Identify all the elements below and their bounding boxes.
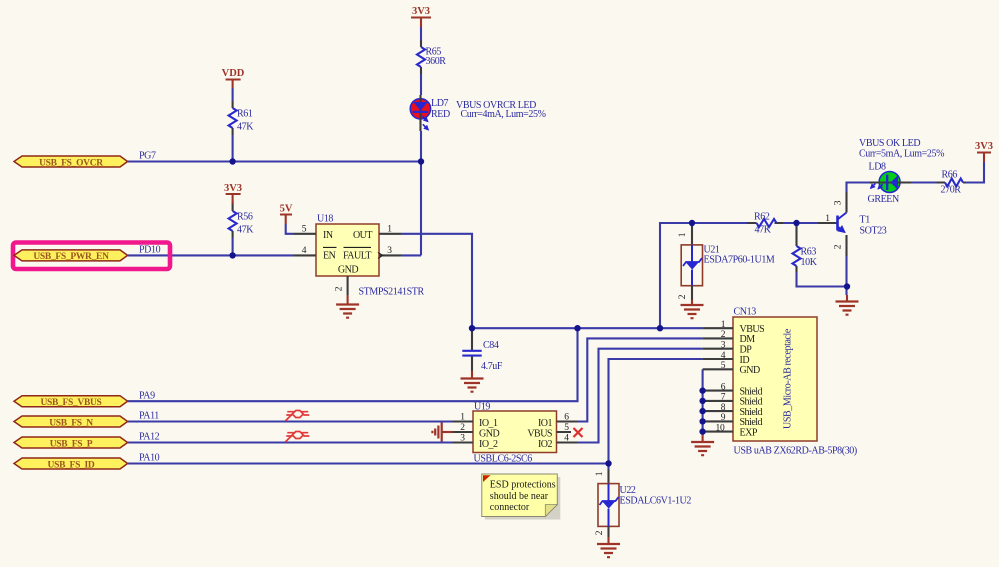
port USB_FS_OVCR (14, 156, 128, 168)
svg-text:PD10: PD10 (139, 245, 161, 256)
svg-text:should be near: should be near (490, 491, 549, 502)
IC U18 regulator (294, 214, 401, 296)
svg-text:360R: 360R (426, 56, 447, 67)
svg-text:ESD protections: ESD protections (490, 480, 556, 491)
svg-text:1: 1 (825, 214, 830, 224)
svg-text:6: 6 (721, 382, 726, 392)
wire PA9 VBUS riser (128, 328, 578, 401)
ground C84 (461, 371, 484, 392)
svg-text:6: 6 (564, 413, 569, 423)
wire 3V3 to R65 (420, 27, 422, 41)
svg-text:PA9: PA9 (139, 390, 155, 401)
wire U19 IO2 to CN13 DP (577, 349, 703, 443)
svg-text:2: 2 (721, 330, 726, 340)
svg-text:ESDA7P60-1U1M: ESDA7P60-1U1M (704, 255, 775, 266)
svg-text:10: 10 (716, 423, 725, 433)
node OVCR/LD7 (418, 158, 424, 164)
ground CN13 shield (691, 432, 714, 456)
svg-text:R56: R56 (237, 212, 253, 223)
wire U18 OUT to rail (401, 234, 472, 328)
svg-text:3: 3 (387, 246, 392, 256)
node shield6 (699, 387, 705, 393)
wire VBUS rail (472, 327, 703, 329)
svg-text:USBLC6-2SC6: USBLC6-2SC6 (474, 454, 533, 465)
node emitter/R63 (844, 283, 850, 289)
svg-text:4: 4 (721, 351, 726, 361)
svg-text:OUT: OUT (353, 230, 372, 241)
wire PA11 to U19 (128, 420, 453, 422)
svg-text:1: 1 (595, 471, 605, 476)
svg-text:PG7: PG7 (139, 151, 156, 162)
node shield7 (699, 398, 705, 404)
svg-text:1: 1 (721, 320, 726, 330)
node OVCR/R61 (229, 158, 235, 164)
diff pair marker PA11 (285, 411, 309, 422)
svg-text:PA12: PA12 (139, 432, 160, 443)
wire 5V to U18 IN (286, 224, 294, 234)
resistor R66 (937, 170, 967, 196)
svg-text:VBUS: VBUS (527, 428, 552, 439)
svg-text:3V3: 3V3 (412, 6, 430, 17)
wire R62 to T1 base (783, 222, 818, 224)
svg-text:C84: C84 (483, 340, 499, 351)
svg-text:3V3: 3V3 (224, 183, 242, 194)
svg-text:7: 7 (721, 393, 726, 403)
no-ERC X on U19 pin5 (574, 428, 583, 437)
svg-text:SOT23: SOT23 (860, 226, 887, 237)
node rail/PA9 (574, 325, 580, 331)
node R62/R63 (793, 220, 799, 226)
svg-text:IO2: IO2 (538, 439, 553, 450)
port USB_FS_ID (14, 458, 128, 470)
svg-text:R62: R62 (754, 212, 770, 223)
resistor R62 (747, 212, 783, 236)
node shield10 (699, 428, 705, 434)
svg-text:5V: 5V (280, 204, 293, 215)
svg-text:2: 2 (595, 530, 605, 535)
svg-text:USB_Micro-AB receptacle: USB_Micro-AB receptacle (783, 328, 794, 429)
connector CN13 (703, 307, 817, 442)
svg-text:4.7uF: 4.7uF (481, 361, 503, 372)
wire R66 to 3V3 (966, 162, 984, 183)
svg-text:GND: GND (740, 365, 760, 376)
wire LD8 to R66 (911, 181, 937, 183)
ground U19 rotated (432, 423, 452, 442)
diode U21 ESD (678, 223, 775, 300)
highlight box PWR_EN (13, 243, 170, 270)
svg-text:4: 4 (564, 434, 569, 444)
svg-text:GREEN: GREEN (868, 194, 900, 205)
wire LD7 cathode to FAULT vertical (401, 131, 421, 255)
ground U18 (336, 295, 359, 318)
transistor T1 (818, 192, 887, 256)
wire U21 riser (660, 223, 747, 328)
wire USB_FS_OVCR horizontal (128, 160, 421, 162)
wire R65 to LD7 (420, 74, 422, 95)
resistor R61 (229, 101, 255, 135)
svg-text:VDD: VDD (222, 68, 245, 79)
svg-text:1: 1 (678, 232, 688, 237)
svg-text:PA10: PA10 (139, 453, 160, 464)
svg-text:Curr=4mA, Lum=25%: Curr=4mA, Lum=25% (461, 109, 546, 120)
wire 3V3 to R56 (232, 202, 234, 204)
svg-text:10K: 10K (801, 257, 818, 268)
svg-text:47K: 47K (755, 225, 772, 236)
node ID/U22 (605, 460, 611, 466)
ground T1 (836, 295, 859, 315)
capacitor C84 (462, 328, 503, 372)
svg-text:U19: U19 (474, 402, 490, 413)
wire R63 bottom to emitter (797, 272, 848, 287)
svg-text:1: 1 (387, 225, 392, 235)
svg-text:FAULT: FAULT (343, 250, 371, 261)
wire PA12 to U19 (128, 441, 453, 443)
svg-text:VBUS OK LED: VBUS OK LED (859, 138, 920, 149)
port USB_FS_P (14, 437, 128, 449)
svg-text:USB uAB ZX62RD-AB-5P8(30): USB uAB ZX62RD-AB-5P8(30) (734, 446, 857, 457)
svg-text:5: 5 (302, 225, 307, 235)
power 5V (280, 204, 293, 225)
svg-text:2: 2 (834, 244, 844, 249)
wire USB_FS_PWR_EN horizontal (128, 254, 294, 256)
power 3V3 right (975, 141, 993, 162)
resistor R56 (229, 204, 255, 238)
svg-text:EXP: EXP (740, 427, 758, 438)
svg-text:IO1: IO1 (538, 418, 553, 429)
svg-text:47K: 47K (237, 122, 254, 133)
svg-text:Curr=5mA, Lum=25%: Curr=5mA, Lum=25% (859, 149, 944, 160)
svg-text:9: 9 (721, 413, 726, 423)
svg-text:USB_FS_N: USB_FS_N (49, 418, 93, 428)
wire PA10 ID (128, 462, 609, 464)
diff pair marker PA12 (285, 432, 309, 443)
svg-text:3: 3 (721, 341, 726, 351)
LED LD8 (868, 162, 912, 206)
diode U22 ESD (595, 470, 691, 538)
wire R56 to PWR_EN net (232, 238, 234, 255)
svg-text:R61: R61 (237, 109, 253, 120)
svg-text:5: 5 (564, 423, 569, 433)
svg-text:GND: GND (479, 428, 499, 439)
svg-text:47K: 47K (237, 225, 254, 236)
svg-text:USB_FS_OVCR: USB_FS_OVCR (39, 158, 103, 168)
svg-text:1: 1 (460, 413, 465, 423)
wire VDD to R61 (232, 88, 234, 101)
svg-text:USB_FS_VBUS: USB_FS_VBUS (40, 398, 101, 408)
svg-text:STMPS2141STR: STMPS2141STR (359, 287, 425, 298)
svg-text:GND: GND (338, 265, 358, 276)
svg-text:T1: T1 (860, 215, 871, 226)
power 3V3 mid (224, 183, 242, 204)
node shield8 (699, 408, 705, 414)
power 3V3 top (411, 6, 431, 27)
port USB_FS_N (14, 416, 128, 428)
svg-text:270R: 270R (941, 185, 962, 196)
port USB_FS_VBUS (14, 396, 128, 408)
svg-text:USB_FS_ID: USB_FS_ID (48, 460, 95, 470)
port USB_FS_PWR_EN (14, 250, 128, 262)
svg-text:USB_FS_P: USB_FS_P (50, 439, 93, 449)
node rail/U21 riser (657, 325, 663, 331)
svg-text:R63: R63 (801, 247, 817, 258)
resistor R65 (417, 41, 446, 75)
node shield9 (699, 418, 705, 424)
svg-text:3: 3 (834, 200, 844, 205)
svg-text:ESDALC6V1-1U2: ESDALC6V1-1U2 (620, 496, 692, 507)
svg-text:RED: RED (431, 109, 450, 120)
svg-text:U18: U18 (317, 214, 333, 225)
svg-text:U22: U22 (620, 485, 636, 496)
svg-text:8: 8 (721, 403, 726, 413)
svg-text:2: 2 (335, 286, 345, 291)
svg-text:EN: EN (323, 250, 336, 261)
wire emitter to ground (845, 256, 847, 295)
svg-text:connector: connector (490, 502, 530, 513)
svg-text:IN: IN (323, 230, 333, 241)
wire R61 to OVCR net (232, 135, 234, 162)
note ESD protections (482, 474, 561, 520)
node U21/R62 (689, 220, 695, 226)
svg-text:USB_FS_PWR_EN: USB_FS_PWR_EN (33, 252, 109, 262)
wire U19 IO1 to CN13 DM (577, 338, 703, 421)
svg-text:2: 2 (678, 294, 688, 299)
svg-text:5: 5 (721, 361, 726, 371)
svg-text:LD7: LD7 (431, 98, 449, 109)
node rail/C84 (469, 325, 475, 331)
resistor R63 (793, 223, 818, 272)
svg-text:IO_2: IO_2 (479, 439, 498, 450)
ground U22 (597, 537, 620, 557)
svg-text:CN13: CN13 (734, 307, 757, 318)
svg-text:R66: R66 (942, 170, 958, 181)
svg-text:3: 3 (460, 434, 465, 444)
node PWR_EN/R56 (229, 252, 235, 258)
svg-text:3V3: 3V3 (975, 141, 993, 152)
ground U21 (681, 300, 704, 318)
wire collector to LD8 (847, 183, 870, 193)
power VDD (222, 68, 245, 88)
IC U19 usb filter (453, 402, 578, 453)
svg-text:2: 2 (460, 423, 465, 433)
svg-text:LD8: LD8 (869, 162, 887, 173)
svg-text:PA11: PA11 (139, 411, 159, 422)
svg-text:IO_1: IO_1 (479, 418, 498, 429)
svg-text:4: 4 (302, 246, 307, 256)
wire ID riser to U22 (609, 359, 703, 470)
LED LD7 (410, 95, 450, 131)
wire CN13 GND shield bus (702, 369, 704, 431)
